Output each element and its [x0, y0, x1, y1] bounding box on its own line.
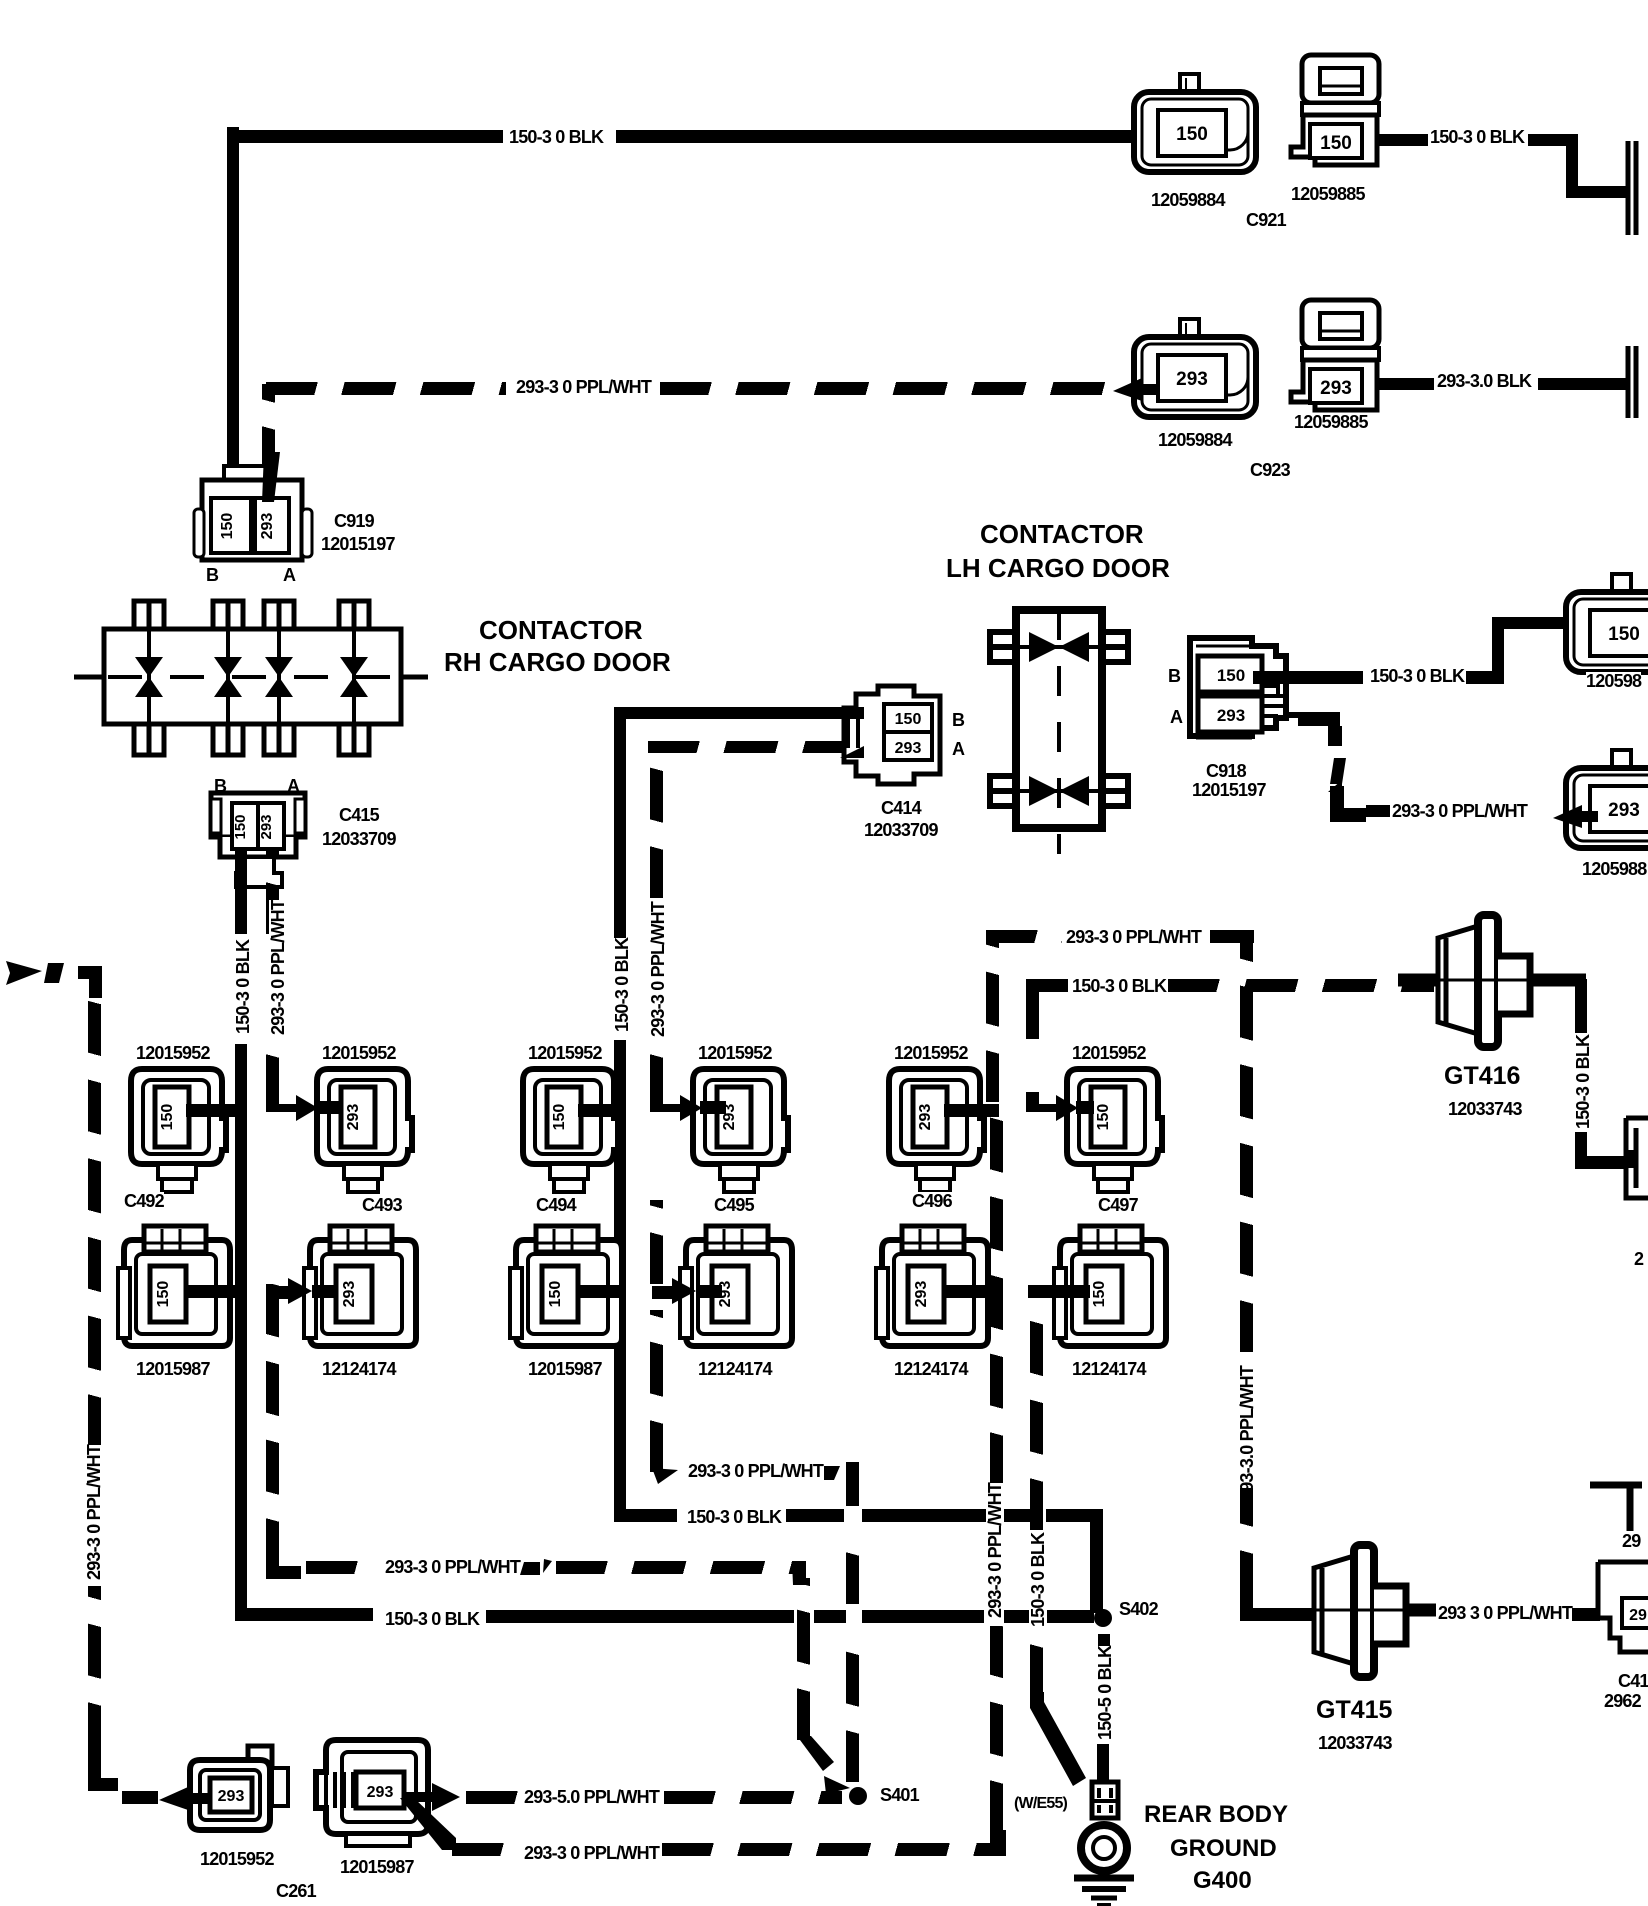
arrow head (left feed wire) [6, 961, 66, 987]
svg-text:150: 150 [551, 1104, 568, 1131]
wire 293 stub C496 to vertical [944, 1104, 999, 1117]
label 12015197 (C919) [321, 535, 395, 553]
connector 12059885 C921 (pin 150) [1286, 52, 1382, 172]
wire 150 BLK top horizontal right segment [616, 130, 1162, 143]
splice S401 [849, 1787, 867, 1805]
wire 293 dashed vertical x852 mid [846, 1532, 859, 1604]
label C414 [881, 799, 921, 817]
svg-text:29: 29 [1629, 1607, 1647, 1624]
svg-text:293: 293 [1320, 378, 1352, 399]
wire 150 BLK from C918 [1253, 671, 1363, 684]
wire 293 diagonal+arrow into S401 [796, 1736, 860, 1798]
label C923 [1250, 461, 1290, 479]
label S401 [880, 1786, 919, 1804]
wire 150 BLK step up [1492, 617, 1504, 684]
connector bar (right splice row2) [1624, 346, 1648, 418]
label 12015197 (C918) [1192, 781, 1266, 799]
label 150-3 0 BLK (row y1516) [687, 1508, 781, 1526]
contactor RH cargo door [72, 596, 432, 760]
wire 293-5.0 dash [466, 1791, 518, 1804]
connector 12059885 C923 (pin 293) [1286, 297, 1382, 417]
label 293-3 0 PPL/WHT (top wire) [516, 378, 651, 396]
svg-text:293: 293 [367, 1784, 394, 1801]
label 12059884 (C921) [1151, 191, 1225, 209]
wire 293 into C41x [1572, 1608, 1600, 1621]
svg-text:150: 150 [155, 1281, 172, 1308]
connector partial (right edge mid) [1622, 1106, 1648, 1210]
label 2.. (right edge partial) [1634, 1250, 1643, 1268]
wire 293 PPL/WHT dashed top horizontal right segment [660, 382, 1108, 395]
label C919 [334, 512, 374, 530]
diode columns [108, 629, 424, 724]
wire 150 BLK (row y1516 segs) [786, 1509, 844, 1522]
label G400 [1193, 1869, 1252, 1893]
connector C918 12015197 [1186, 634, 1306, 754]
wire 293 dashed long vertical (right of bracket to GT415) [1240, 930, 1253, 1352]
label S402 [1119, 1600, 1158, 1618]
wire 150 BLK vertical (C414 to C494) lower [614, 1040, 626, 1522]
connector C493 upper 12015952 (pin 293) [314, 1066, 414, 1196]
label C496 [912, 1192, 952, 1210]
connector C495 lower 12124174 (pin 293) [680, 1224, 800, 1352]
connector C493 lower 12124174 (pin 293) [304, 1224, 424, 1352]
label 12015952 (C497) [1072, 1044, 1146, 1062]
label C493 [362, 1196, 402, 1214]
label 12015952 (bottom) [200, 1850, 274, 1868]
wire 150 corner-arrow into C497 [1026, 1092, 1106, 1122]
label 12015987 (C492 lower) [136, 1360, 210, 1378]
wire 293 diagonal out of C261 [398, 1798, 458, 1858]
connector C496 upper 12015952 (pin 293) [886, 1066, 986, 1196]
wire 293 dashed vertical (C493 to bottom corner) [266, 1284, 279, 1570]
label 12124174 (C493 lower) [322, 1360, 396, 1378]
title LH CARGO DOOR [946, 555, 1170, 581]
label B (C918) [1168, 667, 1180, 685]
stub right [401, 675, 428, 680]
wire 150-5 dash below S402 [1098, 1634, 1110, 1650]
wire 150 BLK dashed bracket horizontal [1026, 979, 1068, 992]
wire 150 BLK (row y1616 segs) [486, 1610, 794, 1623]
label 150-3 0 BLK (row y1616) [385, 1610, 479, 1628]
svg-text:293: 293 [917, 1104, 934, 1131]
label C41.. [1618, 1672, 1648, 1690]
connector C492 upper 12015952 (pin 150) [128, 1066, 228, 1196]
wire 293 stub C496 lower [944, 1285, 999, 1298]
tabs top [134, 601, 369, 629]
svg-text:293: 293 [345, 1104, 362, 1131]
wire 293 dashed corner (x272 to label row) [266, 1548, 306, 1588]
svg-text:293: 293 [1608, 800, 1640, 821]
wire 293 corner-arrow into C493 [266, 1092, 346, 1122]
wire 293 dashes (row y1565) [306, 1561, 380, 1574]
wire 150 BLK dashed bracket corner [1026, 979, 1039, 1039]
label B (C415) [214, 777, 226, 795]
wire 150-5 solid to ring [1097, 1744, 1109, 1786]
wire 293 dashed to bottom 12015952 [122, 1791, 158, 1804]
connector C494 lower 12015987 (pin 150) [510, 1224, 630, 1352]
wire 150 dashed vertical x1036 lower [1030, 1634, 1043, 1696]
wire 293-5.0 dashed to S401 [664, 1791, 842, 1804]
wire 293 dashed vertical (C414 to C495) lower [650, 1042, 663, 1106]
label (W/E55) [1014, 1796, 1067, 1812]
label 293-3 0 PPL/WHT (C918 wire) [1392, 802, 1527, 820]
wire 150 dashed vertical x1036 (C497 to ground) [1030, 1298, 1043, 1530]
svg-text:150: 150 [159, 1104, 176, 1131]
wire 293 dashed corner down (x806) [792, 1558, 822, 1588]
svg-text:150: 150 [1176, 124, 1208, 145]
title RH CARGO DOOR [444, 649, 671, 675]
wire 150 BLK drop to S402 [1090, 1509, 1103, 1613]
svg-text:150: 150 [1320, 133, 1352, 154]
svg-text:293: 293 [913, 1281, 930, 1308]
wire 150 stub C497 lower [1028, 1285, 1090, 1298]
wire 150 BLK top horizontal left segment [227, 130, 503, 143]
label C415 [339, 806, 379, 824]
wire 293 dashed vertical (C415 to C493) [266, 1044, 279, 1106]
label C261 [276, 1882, 316, 1900]
ring terminal G400 [1072, 1782, 1142, 1906]
label 150-3 0 BLK (bracket) [1072, 977, 1166, 995]
wire 293 dashed vertical (C414 to C495) upper [650, 748, 663, 898]
label GT416 [1444, 1064, 1520, 1089]
wire 150 BLK top vertical [227, 127, 239, 501]
connector C494 upper 12015952 (pin 150) [520, 1066, 620, 1196]
label 150-3 0 BLK (top right) [1430, 128, 1524, 146]
wire 293 BLK from 12059885 [1378, 378, 1434, 390]
label 293-3.0 PPL/WHT (rotated, long vertical) [1238, 1366, 1256, 1501]
stub left [74, 675, 104, 680]
wire 293 dashes (row y1565 right) [556, 1561, 796, 1574]
svg-text:293: 293 [258, 814, 275, 839]
body [104, 629, 401, 724]
label REAR BODY [1144, 1803, 1288, 1827]
label C497 [1098, 1196, 1138, 1214]
connector C261 12015987 (pin 293) [312, 1738, 442, 1850]
wire 293 dashed below C415 [266, 850, 279, 934]
arrow into C923 pin 293 [1112, 377, 1158, 403]
svg-text:150: 150 [1608, 624, 1640, 645]
wire 150 stub C492 to vertical [186, 1104, 247, 1117]
wire 150 BLK C494 to C414 horizontal [614, 707, 864, 719]
label 12015987 (C494 lower) [528, 1360, 602, 1378]
label C918 [1206, 762, 1246, 780]
wire 293 corner-arrow into C495 [650, 1092, 730, 1122]
connector 12015952 (bottom, pin 293) [186, 1744, 304, 1836]
wire 150 BLK right segment [1528, 134, 1574, 146]
wire 293 dashed vertical (C495 row1 to row2) [650, 1200, 663, 1284]
label 150-3 0 BLK (rotated, right drop) [1574, 1035, 1592, 1129]
label 29.. (right edge) [1622, 1532, 1640, 1550]
label C492 [124, 1192, 164, 1210]
partial connector top (right edge above C41x) [1590, 1480, 1648, 1532]
label A (C918) [1170, 708, 1182, 726]
wire 293 solid into GT415 [1270, 1608, 1314, 1621]
label 150-3 0 BLK (C918 wire) [1370, 667, 1464, 685]
title CONTACTOR (RH) [479, 617, 643, 643]
label 12059884 (C923) [1158, 431, 1232, 449]
svg-text:150: 150 [232, 814, 249, 839]
wire 293 dashed vertical x852 lower (to S401) [846, 1632, 859, 1782]
svg-text:150: 150 [547, 1281, 564, 1308]
wire 293 dashed vertical (C495 to bottom corner) [650, 1310, 663, 1472]
label 2962.. [1604, 1692, 1641, 1710]
svg-text:293: 293 [259, 513, 276, 540]
label A (C414) [952, 740, 964, 758]
label GT415 [1316, 1698, 1392, 1723]
svg-text:293: 293 [895, 740, 922, 757]
label 150-3 0 BLK (rotated x1036) [1029, 1533, 1047, 1627]
label 150-3 0 BLK (top wire) [509, 128, 603, 146]
label 12033743 (GT415) [1318, 1734, 1392, 1752]
wire 150 BLK corner down from GT416 [1575, 979, 1587, 1001]
wire 293 dashed drop to C919 [262, 384, 275, 478]
label 12033709 (C414) [864, 821, 938, 839]
wire 150 BLK segment to step [1466, 671, 1504, 684]
label B (C919) [206, 566, 218, 584]
wire 293 dashed bracket right part [1210, 930, 1254, 943]
svg-text:150: 150 [219, 513, 236, 540]
grommet GT416 12033743 [1398, 910, 1598, 1060]
tabs bottom [134, 724, 369, 755]
label 293-3 0 PPL/WHT (rotated x996) [986, 1483, 1004, 1618]
label C494 [536, 1196, 576, 1214]
label 12015952 (C494) [528, 1044, 602, 1062]
label 293 3 0 PPL/WHT (GT415 wire) [1438, 1604, 1572, 1622]
svg-text:150: 150 [1091, 1281, 1108, 1308]
wire 150 stub C492 lower [186, 1285, 247, 1298]
label 150-3 0 BLK (rotated, C415) [234, 940, 252, 1034]
connector C919 12015197 [192, 464, 314, 564]
wire 150 BLK step right [1566, 186, 1630, 198]
wire 150 BLK corner (x620 row y1516) [614, 1509, 677, 1522]
wire 293 dashed vertical x806 (to S401) [797, 1578, 810, 1740]
connector C495 upper 12015952 (pin 293) [690, 1066, 790, 1196]
label 293-3.0 BLK [1437, 372, 1531, 390]
label 12015952 (C492) [136, 1044, 210, 1062]
label A (C415) [287, 777, 299, 795]
wire 293 dashed vertical (left edge) [88, 996, 101, 1446]
label 12059885 (C921) [1291, 185, 1365, 203]
wire 293 dashed vertical left of bracket (to C496) [986, 930, 999, 1102]
grommet GT415 12033743 [1306, 1540, 1446, 1690]
title CONTACTOR (LH) [980, 521, 1144, 547]
label 12033743 (GT416) [1448, 1100, 1522, 1118]
connector C496 lower 12124174 (pin 293) [876, 1224, 996, 1352]
wire 293 BLK right segment [1538, 378, 1626, 390]
wire 293 dashed bottom run [452, 1843, 518, 1856]
svg-text:293: 293 [341, 1281, 358, 1308]
label C921 [1246, 211, 1286, 229]
label 293-3 0 PPL/WHT (bracket) [1066, 928, 1201, 946]
wire 293 dashed corner (left feed) [76, 964, 106, 998]
wire 293-5.0 arrow out of C261 [402, 1783, 462, 1809]
contactor LH cargo door [983, 598, 1133, 860]
wire 150 BLK vertical (C414 to C494) upper [614, 707, 626, 939]
svg-text:293: 293 [1176, 369, 1208, 390]
arrow into bottom 12015952 [158, 1786, 208, 1812]
splice S402 [1094, 1609, 1112, 1627]
connector C415 12033709 [206, 791, 310, 895]
wire 293 dashed corner (left bottom) [84, 1752, 118, 1792]
label 12015952 (C495) [698, 1044, 772, 1062]
wire 293 arrow into C495 lower [652, 1278, 724, 1306]
svg-text:293: 293 [218, 1788, 245, 1805]
wire 293 dashed step from C918 pin A [1284, 706, 1364, 806]
label 12124174 (C497 lower) [1072, 1360, 1146, 1378]
label B (C414) [952, 711, 964, 729]
wire 293 PPL/WHT dashed top horizontal left segment [266, 382, 506, 395]
wire 293 dash into C919 pin A [258, 452, 284, 502]
connector C497 lower 12124174 (pin 150) [1054, 1224, 1174, 1352]
connector 12059884 C923 (pin 293) [1130, 317, 1266, 421]
label 12059885 (C923) [1294, 413, 1368, 431]
connector 12059884 (right edge, pin 150) [1562, 572, 1648, 676]
connector bar (top right splice) [1624, 141, 1648, 235]
wire 293 dashed corner down (x852) [824, 1462, 864, 1504]
svg-text:150: 150 [895, 711, 922, 728]
wire 150 BLK step right into 12059884 [1492, 617, 1584, 629]
label 12015952 (C493) [322, 1044, 396, 1062]
wire 293 dashed bottom run right [662, 1843, 986, 1856]
label 293-5.0 PPL/WHT [524, 1788, 659, 1806]
label 12033709 (C415) [322, 830, 396, 848]
label 120598.. (right edge) [1586, 672, 1641, 690]
connector C41x partial (right edge) [1594, 1556, 1648, 1666]
wire 150 BLK vertical main (C415 to bottom) [235, 1044, 247, 1621]
label 1205988.. (right edge 293) [1582, 860, 1646, 878]
wire 150 BLK dashed drop (right edge) [1575, 1001, 1587, 1033]
svg-text:150: 150 [1217, 666, 1245, 685]
wire 293 dashed vertical x852 upper [846, 1466, 859, 1506]
wire 150 stub C494 to vertical [578, 1104, 626, 1117]
label 293-3 0 PPL/WHT (row y1565) [385, 1558, 520, 1576]
label 293-3 0 PPL/WHT (row y1466) [688, 1462, 823, 1480]
label 12015952 (C496) [894, 1044, 968, 1062]
wire 293 dashed to label [1366, 805, 1390, 817]
label 150-3 0 BLK (rotated, C414 drop) [613, 938, 631, 1032]
label 12015987 (C261) [340, 1858, 414, 1876]
arrow dash (row y1565) [522, 1559, 552, 1581]
wire 293 dashed long vertical lower part [1240, 1488, 1253, 1602]
label 150-5 0 BLK (rotated) [1096, 1646, 1114, 1740]
connector C414 12033709 [838, 680, 948, 790]
wire 150 BLK corner to right connector [1575, 1156, 1624, 1169]
label 293-3 0 PPL/WHT (rotated, C414 drop) [649, 902, 667, 1037]
label C495 [714, 1196, 754, 1214]
wire 293 dashed step corner [1326, 786, 1366, 826]
label A (C919) [283, 566, 295, 584]
wire 293 dashed C495 to C414 horizontal [648, 741, 844, 753]
wire 150 BLK dashed to GT416 [1168, 979, 1434, 992]
wire 293 corner-arrow (x655 to label row) [648, 1444, 688, 1484]
connector C497 upper 12015952 (pin 150) [1064, 1066, 1164, 1196]
label 293-3 0 PPL/WHT (rotated, left edge) [85, 1445, 103, 1580]
arrow into right 12059884 pin 293 [1552, 804, 1598, 830]
wire 293 dashed vertical x996 lower [990, 1626, 1003, 1832]
label 12124174 (C495 lower) [698, 1360, 772, 1378]
wire 150 BLK dashed drop lower [1575, 1132, 1587, 1162]
wire 150 stub C494 lower [578, 1285, 626, 1298]
wire 150 BLK from 12059885 [1378, 134, 1428, 146]
wire 293 dashed vertical x996 (C496 to bottom) [990, 1116, 1003, 1484]
connector 12059884 C921 (pin 150) [1130, 72, 1266, 176]
wire 293 arrow into C493 lower [268, 1278, 340, 1306]
wire 293 dashed vertical (left edge lower) [88, 1586, 101, 1754]
label 12124174 (C496 lower) [894, 1360, 968, 1378]
wire 150 BLK corner (x241 row y1616) [235, 1608, 373, 1621]
label 293-3 0 PPL/WHT (bottom run) [524, 1844, 659, 1862]
wire 150 BLK step down [1566, 134, 1578, 194]
label 293-3 0 PPL/WHT (rotated, C415) [269, 900, 287, 1035]
wire 150 diagonal to ring (W/E55) [1028, 1692, 1098, 1788]
wire 293 dashed corner (bottom right of run) [980, 1830, 1010, 1860]
svg-text:293: 293 [1217, 706, 1245, 725]
wire 293 corner to GT415 [1234, 1586, 1274, 1626]
connector C492 lower 12015987 (pin 150) [118, 1224, 238, 1352]
connector 12059884 (right edge, pin 293) [1562, 748, 1648, 852]
arrow into C414 pin A [838, 736, 864, 758]
wire 293 dashed bracket horizontal [986, 930, 1062, 943]
label GROUND [1170, 1837, 1277, 1861]
wire 150 BLK below C415 [235, 848, 247, 934]
